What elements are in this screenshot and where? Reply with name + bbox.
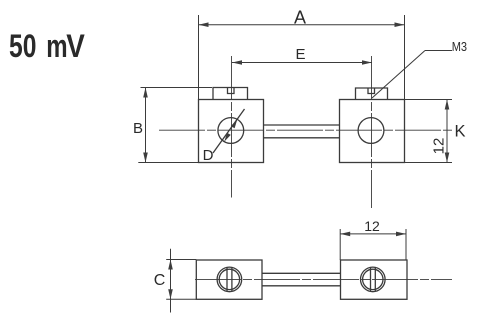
top view right hole: [358, 118, 384, 144]
svg-text:V: V: [66, 29, 85, 64]
side view left block: [196, 260, 262, 299]
dimension B top extension line: [141, 87, 213, 89]
side view left screw slot line 2: [231, 268, 233, 291]
svg-text:12: 12: [431, 138, 448, 155]
dimension 12 bottom right extension: [405, 229, 407, 260]
side view horizontal centerline: [195, 278, 452, 280]
dimension E left arrow: [232, 60, 242, 65]
dimension 12 bottom right arrow: [396, 232, 406, 237]
dimension 12 right bottom extension: [405, 162, 453, 164]
dimension 12 bottom left arrow: [340, 232, 350, 237]
side view right screw slot line 2: [374, 268, 376, 291]
dimension 12 right line: [446, 100, 448, 163]
svg-text:B: B: [133, 120, 143, 137]
side view left screw head inner: [219, 269, 239, 289]
dimension A left arrow: [199, 22, 209, 27]
side view left screw slot line 1: [226, 268, 228, 291]
top view left block: [199, 100, 264, 163]
top view right screw boss: [356, 88, 388, 100]
dimension E right arrow: [362, 60, 372, 65]
dimension E line: [232, 62, 372, 64]
diameter arrow lower: [224, 133, 231, 142]
svg-text:12: 12: [364, 218, 380, 234]
dimension B top arrow: [143, 88, 148, 98]
dimension C top arrow: [168, 260, 173, 270]
leader M3 diagonal segment: [372, 51, 425, 99]
top view left screw boss: [213, 88, 248, 100]
dimension A line: [199, 24, 405, 26]
diameter arrow upper: [231, 119, 238, 128]
side view right screw head inner: [363, 269, 383, 289]
dimension C line: [170, 249, 172, 313]
dimension B line: [145, 88, 147, 163]
dimension B bottom extension line: [138, 162, 199, 164]
side view left screw head outer: [217, 267, 242, 292]
dimension 12 bottom left extension: [339, 229, 341, 260]
top view left hole: [218, 118, 244, 144]
side view right screw head outer: [361, 267, 386, 292]
top view left screw slot: [228, 88, 235, 94]
svg-text:M3: M3: [452, 39, 468, 54]
svg-text:E: E: [295, 46, 305, 63]
dimension 12 right top arrow: [445, 100, 450, 110]
dimension A left extension line: [198, 15, 200, 100]
dimension 12 right bottom arrow: [445, 153, 450, 163]
dimension C top extension: [166, 259, 196, 261]
horizontal centerline top view: [159, 129, 454, 131]
side view right block: [341, 260, 408, 299]
svg-text:K: K: [454, 123, 465, 141]
dimension 12 right top extension: [405, 99, 453, 101]
svg-text:50: 50: [9, 29, 36, 65]
top view right screw slot: [368, 88, 375, 94]
dimension B bottom arrow: [143, 153, 148, 163]
side view bar top edge: [262, 272, 341, 274]
side view right screw slot line 1: [370, 268, 372, 291]
dimension A right arrow: [395, 22, 405, 27]
top view right block: [340, 100, 405, 163]
dimension A right extension line: [404, 15, 406, 100]
left hole vertical centerline: [231, 56, 233, 198]
dimension C bottom arrow: [168, 289, 173, 299]
dimension 12 bottom line: [340, 233, 406, 235]
dimension C bottom extension: [166, 298, 196, 300]
top view shunt bar bottom edge: [264, 137, 340, 139]
side view bar bottom edge: [262, 285, 341, 287]
svg-text:C: C: [154, 272, 166, 289]
leader M3 horizontal segment: [425, 50, 452, 52]
svg-text:D: D: [203, 147, 214, 164]
svg-text:m: m: [46, 28, 67, 64]
svg-text:A: A: [294, 7, 306, 27]
right hole vertical centerline: [371, 56, 373, 208]
top view shunt bar top edge: [264, 124, 340, 126]
leader line D through hole: [213, 109, 245, 153]
